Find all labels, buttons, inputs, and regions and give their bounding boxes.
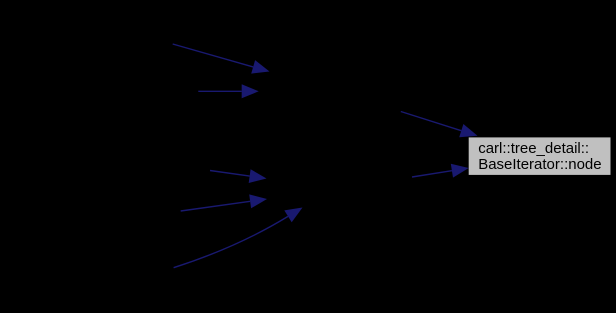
svg-text:BaseIterator::node: BaseIterator::node	[478, 156, 601, 173]
svg-text:carl::tree_detail::: carl::tree_detail::	[478, 140, 589, 157]
